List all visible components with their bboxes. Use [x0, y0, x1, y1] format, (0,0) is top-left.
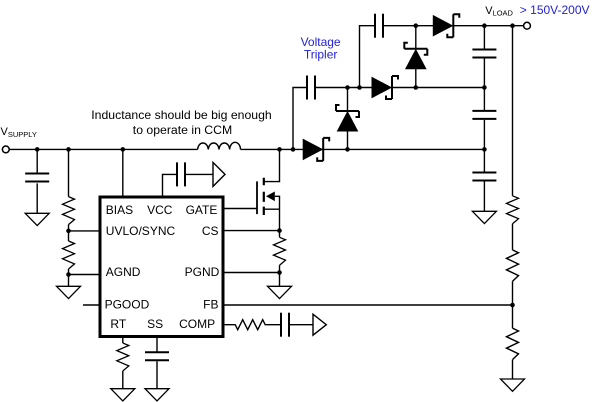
- svg-text:VLOAD: VLOAD: [485, 5, 513, 18]
- svg-text:SS: SS: [147, 317, 163, 331]
- svg-text:UVLO/SYNC: UVLO/SYNC: [106, 224, 176, 238]
- svg-text:AGND: AGND: [106, 265, 141, 279]
- svg-text:CS: CS: [202, 224, 219, 238]
- svg-text:VCC: VCC: [147, 203, 173, 217]
- svg-text:> 150V-200V: > 150V-200V: [520, 3, 590, 17]
- svg-text:GATE: GATE: [186, 203, 218, 217]
- svg-text:PGND: PGND: [185, 265, 220, 279]
- svg-text:to operate in CCM: to operate in CCM: [133, 123, 232, 137]
- svg-text:FB: FB: [203, 298, 218, 312]
- svg-text:RT: RT: [110, 317, 126, 331]
- svg-text:VSUPPLY: VSUPPLY: [1, 126, 37, 139]
- svg-text:PGOOD: PGOOD: [105, 298, 150, 312]
- svg-text:Inductance should be big enoug: Inductance should be big enough: [91, 108, 272, 122]
- svg-text:BIAS: BIAS: [106, 203, 133, 217]
- svg-text:COMP: COMP: [179, 317, 215, 331]
- svg-text:Tripler: Tripler: [304, 48, 338, 62]
